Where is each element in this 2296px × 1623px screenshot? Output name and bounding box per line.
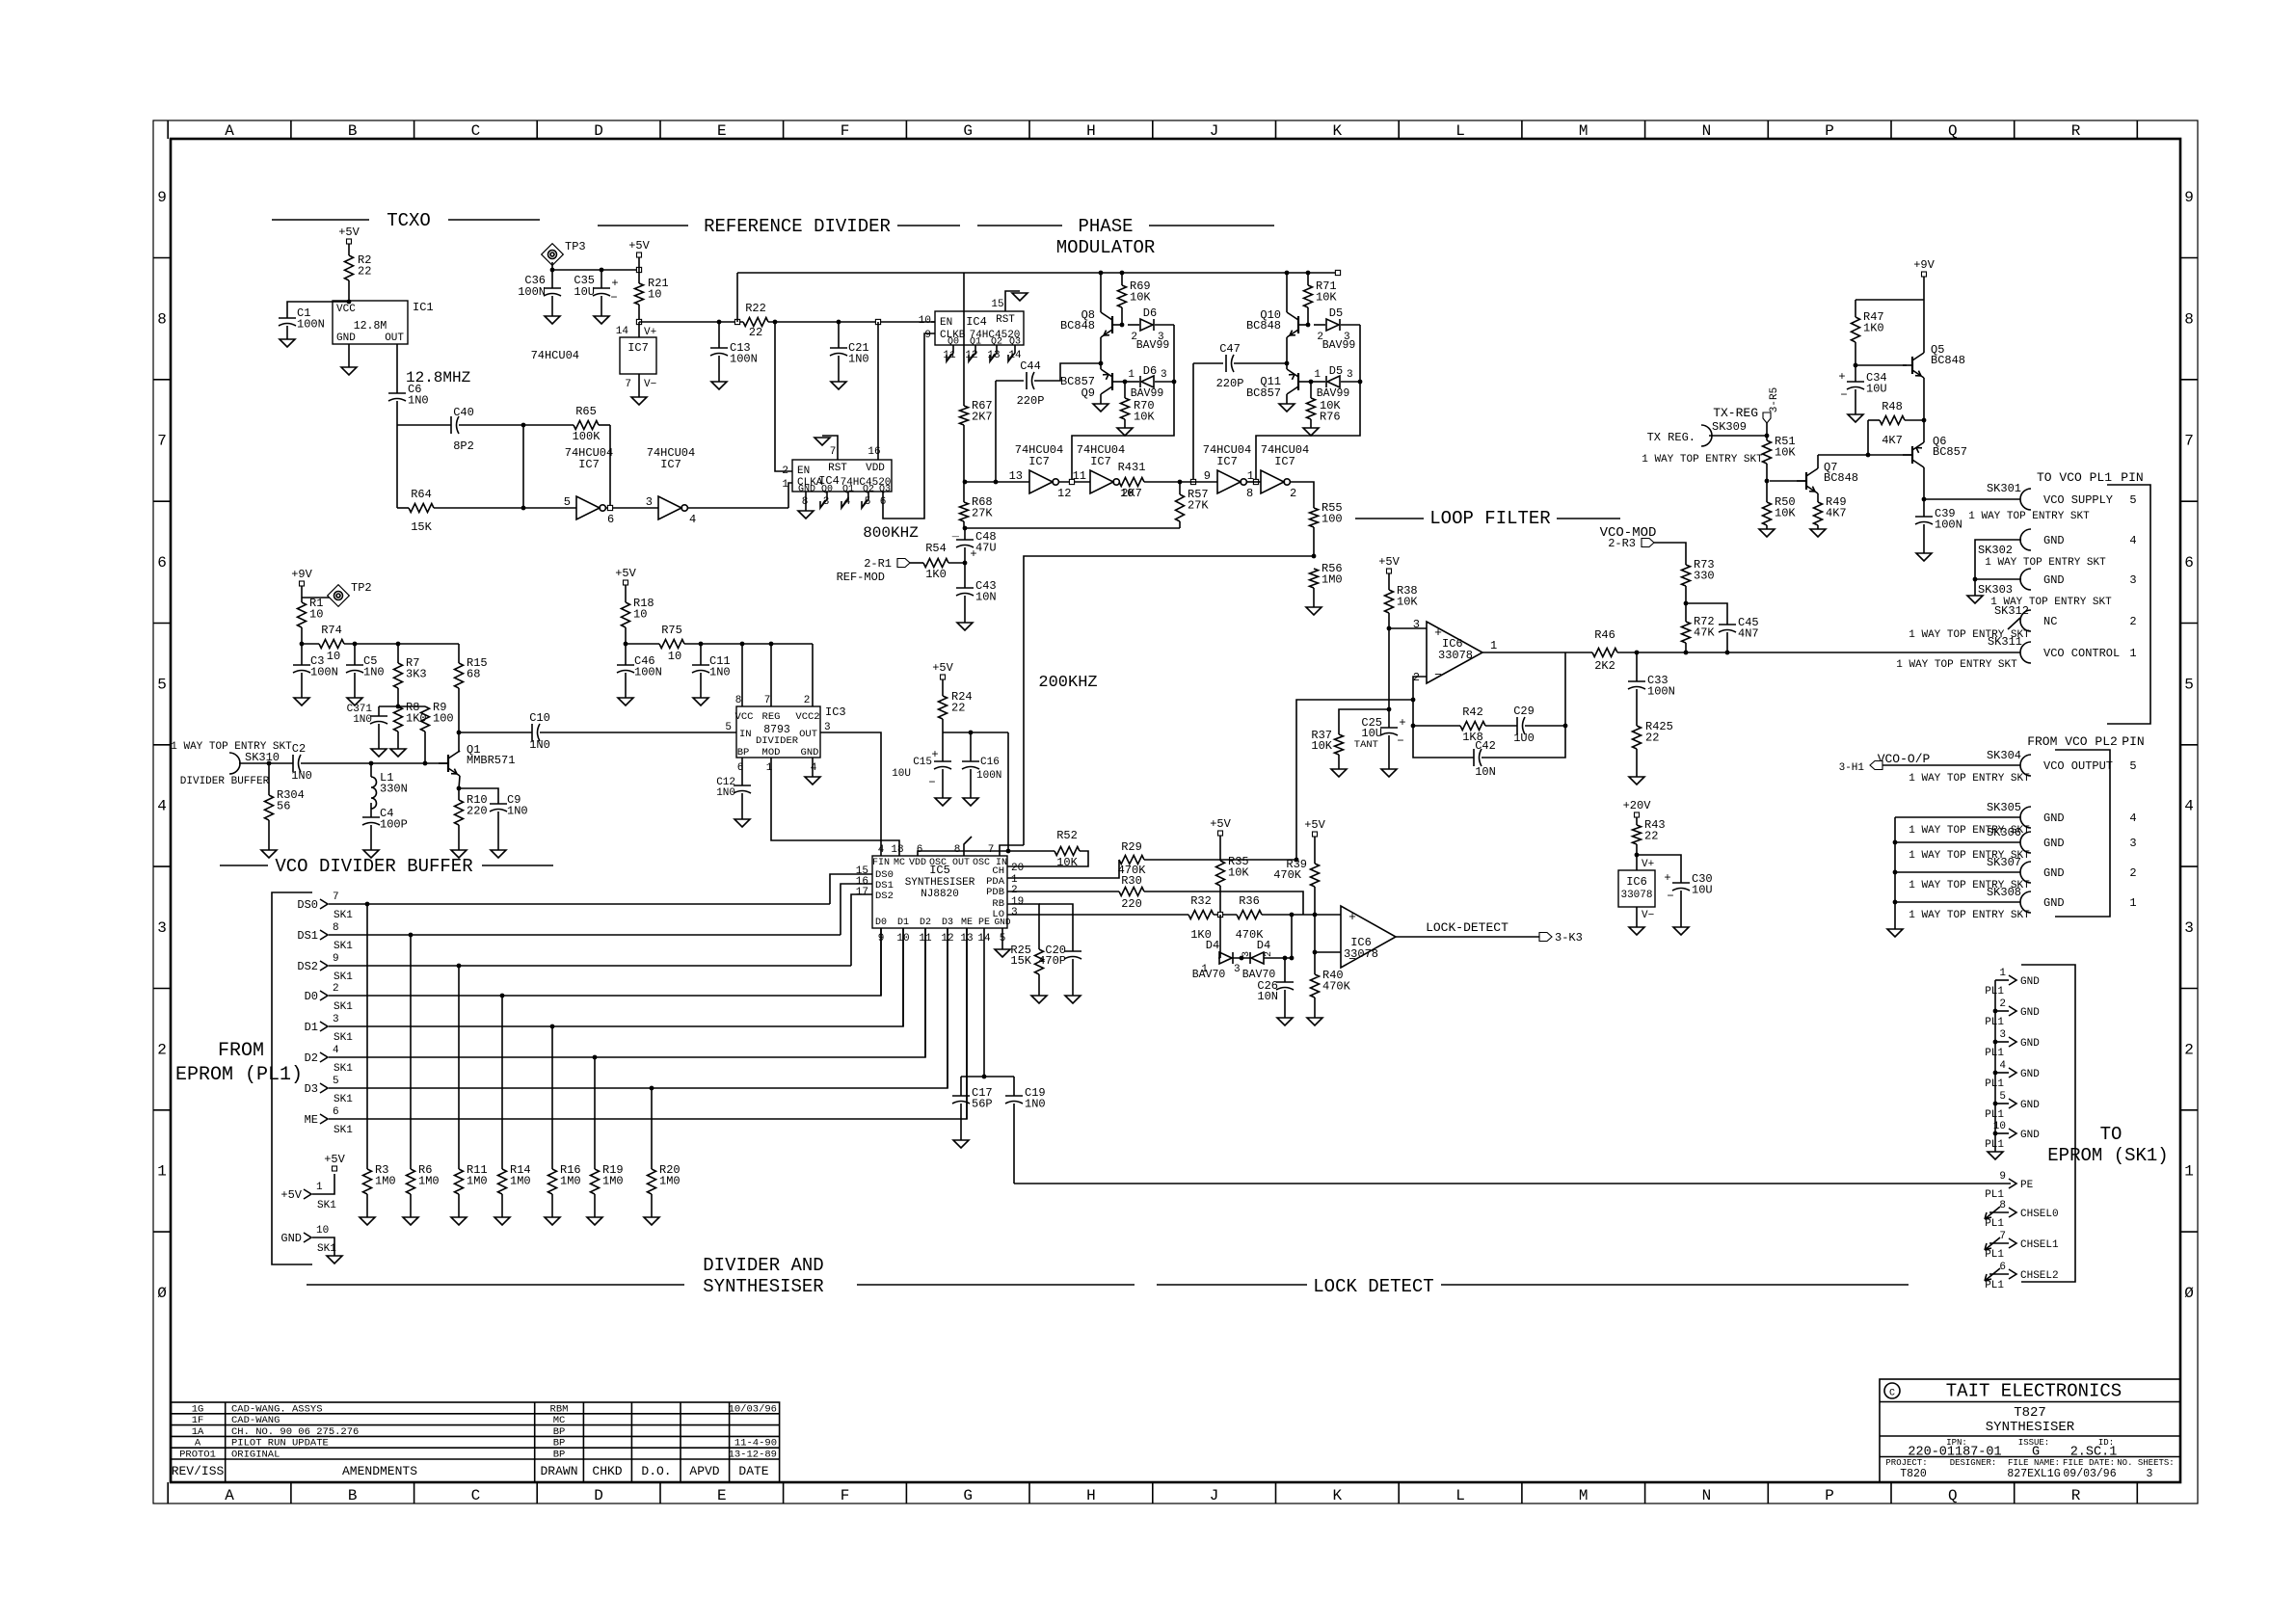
svg-text:IC3: IC3 — [825, 705, 846, 719]
svg-text:5: 5 — [725, 722, 732, 733]
svg-text:1N0: 1N0 — [408, 394, 429, 408]
ground R10 — [451, 850, 467, 858]
connector PL1 3 — [2009, 1037, 2016, 1047]
svg-text:+5V: +5V — [324, 1153, 345, 1166]
wire — [1219, 886, 1221, 915]
svg-text:33078: 33078 — [1620, 890, 1652, 901]
svg-text:7: 7 — [988, 844, 995, 856]
svg-text:DESIGNER:: DESIGNER: — [1950, 1458, 1997, 1468]
svg-text:BP: BP — [553, 1426, 566, 1438]
inverter IC7b — [658, 496, 681, 519]
svg-text:4K7: 4K7 — [1826, 507, 1847, 520]
wire Q1 collector — [459, 751, 460, 752]
wire — [497, 811, 499, 850]
resistor R6 — [407, 1169, 415, 1194]
connector PL1 pin 8 CHSEL0 — [1985, 1207, 2000, 1219]
grid tick bottom — [659, 1482, 661, 1503]
grid tick top — [659, 120, 661, 139]
wire C44 to emitters — [1034, 363, 1101, 381]
node R431 out — [1178, 480, 1183, 485]
grid tick left — [153, 623, 171, 625]
svg-text:C47: C47 — [1219, 342, 1241, 356]
resistor R75 — [659, 640, 684, 649]
capacitor C20 — [1064, 950, 1081, 952]
svg-text:PROTO1: PROTO1 — [179, 1450, 216, 1461]
grid tick top — [2136, 120, 2138, 139]
resistor R21 — [635, 283, 644, 305]
svg-text:EN: EN — [797, 466, 810, 477]
capacitor C45 — [1719, 624, 1736, 625]
svg-text:4: 4 — [333, 1045, 339, 1056]
ground R304 — [261, 850, 277, 858]
svg-text:+: + — [611, 277, 618, 290]
wire opamp output — [1482, 652, 1592, 653]
svg-text:+: + — [1434, 625, 1442, 640]
resistor R72 — [1682, 622, 1691, 643]
svg-text:9: 9 — [2184, 189, 2194, 206]
wire — [963, 521, 965, 528]
svg-text:3: 3 — [1161, 369, 1167, 381]
svg-text:A: A — [225, 1487, 234, 1504]
svg-text:CHKD: CHKD — [592, 1464, 622, 1478]
grid tick top — [905, 120, 907, 139]
wire — [459, 424, 523, 426]
svg-text:D2: D2 — [920, 918, 931, 928]
connector pennant 3-H1 — [1870, 761, 1882, 770]
node D3 pulldown — [650, 1086, 654, 1091]
node C5 — [353, 642, 358, 647]
connector pennant 2-R3 — [1642, 539, 1654, 547]
wire R48 to base rail — [1867, 420, 1869, 455]
svg-text:BC857: BC857 — [1933, 445, 1967, 459]
wire — [1307, 307, 1309, 325]
wire PL1 3 — [1995, 1041, 2009, 1043]
capacitor C371 — [370, 715, 387, 717]
svg-text:7: 7 — [2184, 433, 2194, 450]
wire PE to PL1 — [1014, 1183, 2011, 1184]
grid tick bottom — [2014, 1482, 2016, 1503]
resistor R56 — [1310, 569, 1319, 588]
grid tick left — [153, 1231, 171, 1233]
wire MOD to IC5 MC — [771, 758, 899, 856]
svg-text:−: − — [610, 291, 617, 305]
svg-text:SK303: SK303 — [1978, 583, 2013, 597]
node C35 — [600, 268, 604, 273]
connector SK1 +5V — [304, 1189, 311, 1199]
resistor R70 — [1121, 398, 1130, 419]
svg-text:4: 4 — [157, 798, 167, 815]
node R29/feedback — [1295, 858, 1299, 863]
svg-text:1K0: 1K0 — [925, 568, 947, 581]
ground C34 — [1848, 414, 1863, 422]
svg-text:R: R — [2071, 122, 2081, 140]
wire Q11 collector — [1286, 394, 1288, 404]
node PL1 gnd bus — [1993, 1131, 1998, 1136]
connector SK1 DS0 — [320, 899, 328, 909]
resistor R49 — [1814, 502, 1823, 525]
wire VCO SUPPLY — [1924, 498, 2020, 500]
svg-text:D6: D6 — [1143, 306, 1157, 320]
grid tick bottom — [783, 1482, 785, 1503]
svg-text:C: C — [471, 1487, 481, 1504]
grid tick right — [2180, 1109, 2198, 1111]
wire R65 to inverter output — [609, 425, 611, 508]
svg-text:4: 4 — [2129, 811, 2136, 825]
svg-text:IC7: IC7 — [1274, 455, 1295, 468]
svg-text:VCO CONTROL: VCO CONTROL — [2043, 647, 2120, 660]
wire PL1 gnd bus — [1994, 980, 1996, 1152]
node R7/R8 — [396, 705, 401, 709]
wire — [599, 424, 610, 426]
wire — [838, 356, 840, 382]
wire C44 to divider — [995, 381, 997, 482]
wire — [594, 1194, 596, 1217]
connector SK1 D2 — [320, 1052, 328, 1062]
resistor R73 — [1682, 565, 1691, 586]
svg-text:LOCK-DETECT: LOCK-DETECT — [1426, 920, 1508, 935]
wire C19 down — [1013, 1104, 1015, 1184]
wire — [1284, 958, 1286, 982]
resistor R18 — [622, 602, 630, 627]
capacitor C4 — [362, 816, 380, 818]
capacitor C16 — [962, 760, 979, 762]
wire — [1905, 419, 1924, 421]
capacitor C26 — [1276, 981, 1294, 983]
svg-text:2K7: 2K7 — [972, 411, 993, 424]
node R32/R36 — [1217, 912, 1222, 917]
svg-text:R431: R431 — [1118, 461, 1146, 474]
wire — [942, 719, 944, 732]
svg-text:J: J — [1210, 122, 1219, 140]
svg-text:1: 1 — [2129, 647, 2136, 660]
wire R29 out — [1144, 859, 1296, 861]
ground SK1 — [327, 1256, 342, 1264]
svg-text:470K: 470K — [1273, 868, 1302, 882]
resistor R304 — [265, 795, 274, 820]
svg-text:1: 1 — [2129, 896, 2136, 910]
svg-text:12.8M: 12.8M — [354, 320, 387, 333]
svg-text:15K: 15K — [411, 520, 432, 534]
resistor R40 — [1311, 974, 1320, 998]
section title LOCK DETECT — [1157, 1284, 1307, 1286]
wire — [1311, 381, 1325, 383]
svg-text:C16: C16 — [980, 757, 1000, 768]
resistor R42 — [1460, 722, 1485, 731]
resistor R32 — [1188, 911, 1214, 919]
svg-text:VCO OUTPUT: VCO OUTPUT — [2043, 759, 2113, 773]
svg-text:PDB: PDB — [986, 887, 1004, 898]
ground C11 — [693, 698, 708, 705]
svg-text:18: 18 — [891, 844, 903, 856]
wire - input lock detect — [1315, 951, 1341, 953]
svg-text:G: G — [963, 122, 973, 140]
svg-text:100: 100 — [433, 712, 454, 726]
node R48/Q5e — [1922, 418, 1927, 423]
wire IC5 data pin — [966, 928, 968, 1119]
svg-text:5: 5 — [2129, 759, 2136, 773]
svg-text:+: + — [1348, 910, 1356, 924]
connector SK303 — [2020, 569, 2031, 590]
svg-text:8P2: 8P2 — [453, 439, 474, 453]
grid tick top — [414, 120, 415, 139]
svg-text:GND: GND — [798, 485, 815, 495]
ground C17 — [953, 1140, 969, 1148]
wire — [551, 270, 553, 288]
wire — [1685, 586, 1687, 622]
diode D5b — [1327, 376, 1340, 387]
svg-text:5: 5 — [1999, 1091, 2006, 1103]
svg-text:10: 10 — [309, 608, 323, 622]
svg-text:20: 20 — [1011, 863, 1024, 874]
resistor R15 — [455, 663, 464, 688]
node 200KHZ — [1312, 554, 1317, 559]
svg-text:D: D — [594, 1487, 603, 1504]
wire — [370, 803, 372, 817]
wire — [1219, 836, 1221, 861]
svg-text:10K: 10K — [1311, 739, 1332, 753]
svg-text:IC4: IC4 — [966, 315, 987, 329]
grid tick right — [2180, 623, 2198, 625]
wire C16 branch — [970, 732, 972, 761]
svg-text:+: + — [1838, 370, 1845, 384]
ground IC7 V- — [631, 397, 647, 405]
svg-text:ORIGINAL: ORIGINAL — [231, 1450, 280, 1461]
wire — [1855, 300, 1856, 317]
svg-text:SK312: SK312 — [1994, 604, 2029, 618]
svg-text:7: 7 — [830, 446, 837, 458]
svg-text:TO: TO — [2100, 1124, 2122, 1145]
node REG — [769, 642, 774, 647]
svg-text:−: − — [1434, 668, 1442, 682]
svg-text:SK305: SK305 — [1987, 801, 2021, 814]
svg-text:1F: 1F — [192, 1415, 204, 1426]
wire to inverter 13 — [965, 481, 1029, 483]
border inner frame — [171, 139, 2180, 1482]
wire — [1001, 928, 1003, 949]
wire — [1636, 907, 1638, 927]
wire C10 to IC3 IN — [540, 732, 736, 733]
wire LOCK-DETECT — [1396, 936, 1539, 938]
wire — [1389, 627, 1427, 629]
wire — [812, 758, 814, 777]
svg-text:IC7: IC7 — [578, 458, 600, 471]
svg-text:1 WAY TOP ENTRY SKT: 1 WAY TOP ENTRY SKT — [1896, 659, 2017, 671]
capacitor C42 — [1473, 749, 1475, 766]
node C11 — [699, 642, 704, 647]
table row line — [171, 1458, 779, 1460]
svg-text:GND: GND — [2020, 1100, 2040, 1111]
svg-text:1: 1 — [1314, 369, 1321, 381]
resistor R39 — [1311, 864, 1320, 887]
node Q5 base — [1854, 363, 1858, 368]
svg-text:SK308: SK308 — [1987, 886, 2021, 899]
node R9/base — [423, 761, 428, 766]
svg-text:CH. NO. 90 06 275.276: CH. NO. 90 06 275.276 — [231, 1426, 359, 1438]
resistor R11 — [455, 1169, 464, 1194]
wire — [1121, 307, 1123, 325]
svg-text:1: 1 — [157, 1163, 167, 1181]
node Q10/Q11 emitters — [1285, 361, 1290, 366]
svg-text:MC: MC — [894, 858, 905, 868]
svg-text:27K: 27K — [972, 507, 993, 520]
ground C16 — [963, 798, 978, 806]
svg-text:DIVIDER: DIVIDER — [756, 735, 799, 747]
node C16 — [969, 731, 974, 735]
svg-text:1N0: 1N0 — [1025, 1098, 1046, 1111]
svg-text:M: M — [1579, 122, 1589, 140]
grid tick right — [2180, 500, 2198, 502]
ground R56 — [1306, 607, 1322, 615]
resistor R67 — [960, 406, 969, 425]
capacitor C34 + — [1847, 381, 1864, 383]
wire — [301, 673, 303, 698]
wire Q7 emitter — [1817, 493, 1819, 502]
wire reference bus — [639, 321, 743, 323]
transistor Q6 — [1911, 446, 1913, 464]
transistor Q1 — [447, 755, 449, 772]
wire to TP2 — [302, 597, 332, 599]
diode D4a — [1219, 952, 1232, 964]
svg-text:5: 5 — [157, 676, 167, 693]
svg-text:8: 8 — [735, 695, 742, 706]
svg-text:4N7: 4N7 — [1738, 627, 1759, 641]
wire — [1314, 887, 1316, 974]
svg-text:8: 8 — [2184, 310, 2194, 328]
wire — [1122, 381, 1125, 383]
svg-text:TAIT ELECTRONICS: TAIT ELECTRONICS — [1946, 1381, 2122, 1402]
svg-text:+9V: +9V — [291, 568, 312, 581]
connector PL1 4 — [2009, 1068, 2016, 1078]
svg-text:R46: R46 — [1594, 628, 1615, 642]
wire — [1125, 381, 1139, 383]
grid tick left — [153, 865, 171, 867]
wire 200KHZ to synthesiser — [1024, 556, 1314, 845]
svg-text:4: 4 — [689, 513, 696, 526]
node IC6 V+ — [1635, 853, 1640, 858]
svg-text:−: − — [1667, 890, 1673, 903]
node R64/inverter input — [521, 506, 526, 511]
ground C39 — [1916, 553, 1932, 561]
diode D4b — [1251, 952, 1264, 964]
resistor R52 — [1055, 847, 1080, 856]
svg-text:9: 9 — [1204, 469, 1211, 483]
wire — [1338, 755, 1340, 769]
svg-text:3: 3 — [646, 495, 653, 509]
node TX-REG — [1765, 434, 1770, 439]
inverter IC7d — [1090, 470, 1113, 493]
resistor R57 — [1176, 494, 1185, 521]
ground R11 — [451, 1217, 467, 1225]
connector PL1 5 — [2009, 1099, 2016, 1108]
wire PL1 1 — [1995, 979, 2009, 981]
svg-text:100N: 100N — [1647, 685, 1675, 699]
svg-text:F: F — [841, 1487, 850, 1504]
wire — [1341, 381, 1360, 383]
resistor R30 — [1119, 888, 1144, 896]
wire IC1 OUT — [396, 344, 398, 393]
ground R3 — [360, 1217, 375, 1225]
bracket TO EPROM — [2021, 965, 2075, 1282]
resistor R51 — [1763, 440, 1772, 464]
wire modulator feedback — [1072, 325, 1174, 482]
svg-text:+: + — [970, 547, 976, 561]
wire PL1 2 — [1995, 1010, 2009, 1012]
svg-text:1N0: 1N0 — [529, 738, 550, 752]
ground C5 — [347, 698, 362, 705]
wire — [942, 769, 944, 798]
node emitter — [457, 786, 462, 791]
wire — [551, 1194, 553, 1217]
svg-text:EN: EN — [940, 317, 952, 329]
svg-text:R22: R22 — [745, 302, 766, 315]
wire — [302, 643, 319, 645]
wire DS1 to IC5 — [841, 884, 872, 935]
wire — [700, 644, 702, 665]
svg-text:K: K — [1332, 122, 1342, 140]
wire — [1264, 957, 1292, 959]
wire — [396, 401, 398, 425]
wire — [366, 1194, 368, 1217]
svg-text:10N: 10N — [1475, 765, 1496, 779]
svg-text:R30: R30 — [1121, 874, 1142, 888]
grid tick bottom — [1644, 1482, 1646, 1503]
ground C12 — [734, 819, 750, 827]
wire — [964, 563, 966, 588]
node divider out — [457, 731, 462, 735]
svg-text:P: P — [1825, 1487, 1834, 1504]
wire D1 to resistor — [551, 1026, 553, 1169]
wire EN — [775, 322, 792, 471]
wire — [1636, 652, 1638, 681]
wire C15 branch — [942, 732, 944, 761]
svg-text:100N: 100N — [310, 666, 338, 679]
grid tick left — [153, 1109, 171, 1111]
svg-text:A: A — [225, 122, 234, 140]
wire — [1233, 957, 1250, 959]
node TP3 — [550, 268, 555, 273]
wire — [1770, 480, 1806, 482]
wire C40 node down — [522, 425, 524, 508]
resistor R48 — [1880, 416, 1905, 425]
svg-text:2-R3: 2-R3 — [1608, 537, 1636, 550]
grid tick bottom — [1275, 1482, 1277, 1503]
svg-text:3: 3 — [1011, 907, 1018, 918]
bracket FROM VCO PL2 — [2055, 750, 2110, 917]
wire Q7 collector — [1817, 455, 1819, 468]
svg-text:GND: GND — [2043, 811, 2065, 825]
capacitor C21 — [830, 347, 847, 349]
resistor R71 — [1304, 285, 1313, 307]
diode D6a — [1140, 319, 1153, 331]
svg-text:PE: PE — [978, 918, 990, 928]
wire — [1308, 381, 1311, 383]
connector SK1 D3 — [320, 1083, 328, 1093]
connector pennant 3-K3 — [1539, 933, 1552, 942]
node R2/C1/IC1 — [347, 300, 352, 305]
svg-text:3: 3 — [1241, 951, 1252, 957]
wire SK306 gnd — [1895, 841, 2020, 843]
transistor Q11 — [1297, 373, 1299, 390]
capacitor C1 — [279, 317, 296, 319]
wire PL1 10 — [1995, 1132, 2009, 1134]
svg-text:10K: 10K — [1316, 291, 1337, 305]
svg-text:4: 4 — [2184, 798, 2194, 815]
wire Q10 emitter — [1286, 337, 1288, 363]
svg-text:SK311: SK311 — [1988, 635, 2022, 649]
capacitor C35 + — [593, 287, 610, 289]
connector SK1 D1 — [320, 1022, 328, 1031]
svg-text:L: L — [1455, 122, 1465, 140]
